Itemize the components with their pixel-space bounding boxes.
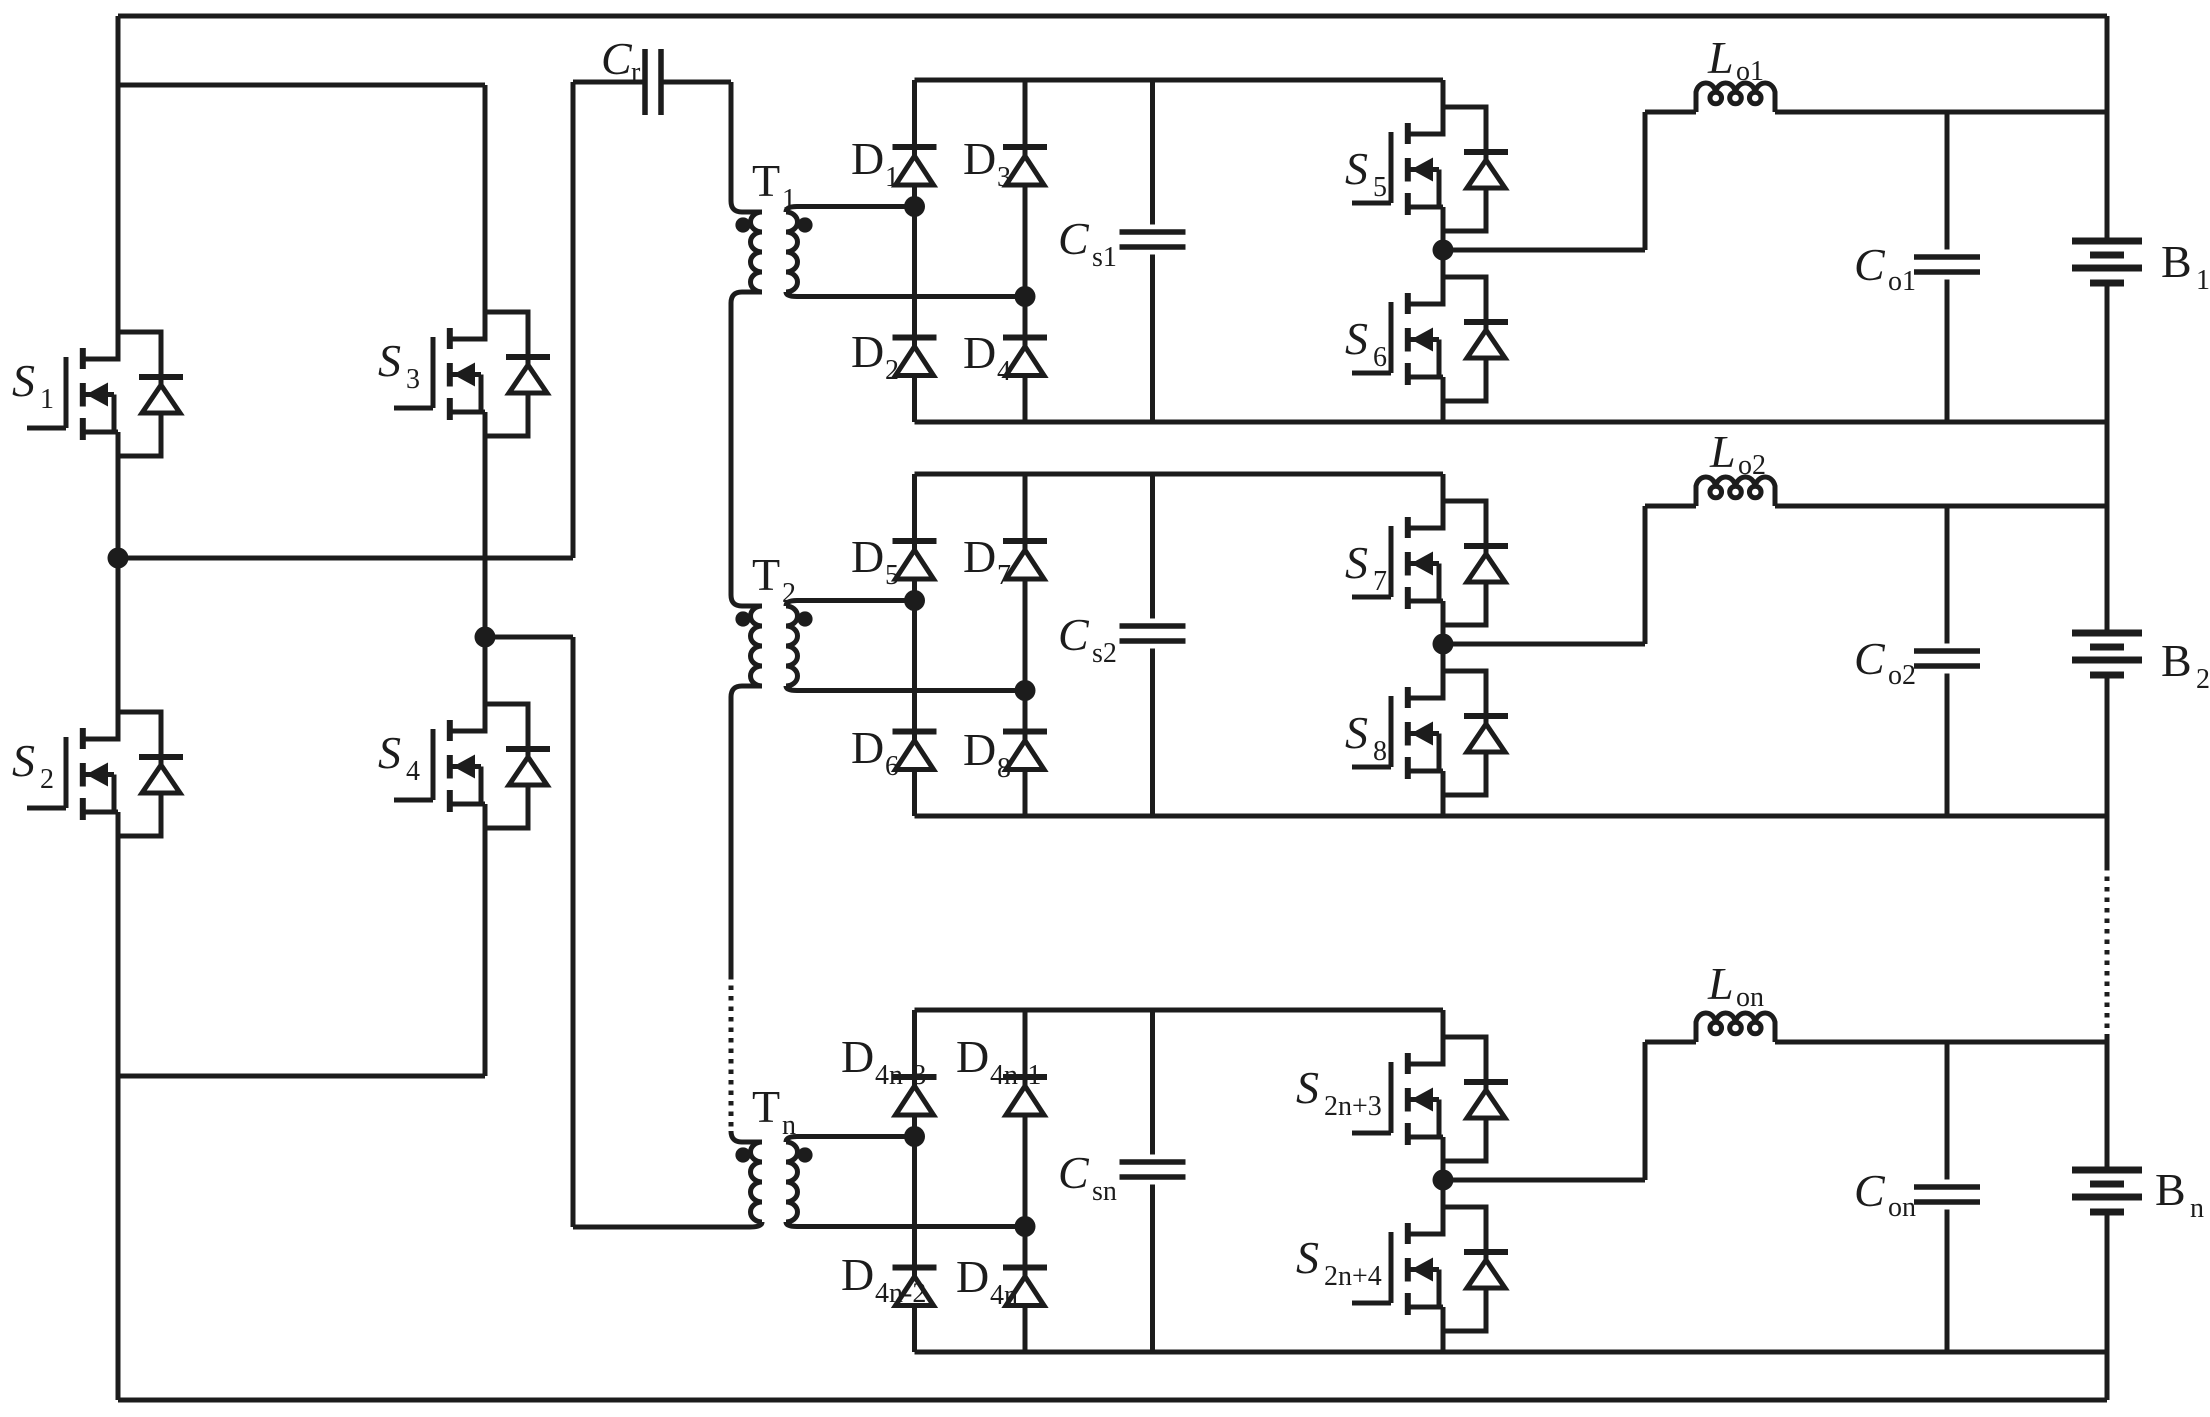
wire: midpoint over to inductor riser — [1443, 642, 1645, 647]
wire: bottom input bus — [118, 1398, 2107, 1403]
wire: S3 source to node B — [483, 436, 488, 637]
node: D1-D2 junction — [904, 196, 925, 217]
wire: capacitor Csn bottom lead — [1150, 1185, 1155, 1353]
wire: Tn secondary bottom lead to D4n-1/D4n node — [786, 1222, 1025, 1227]
diode D4n — [1003, 1268, 1047, 1306]
wire: node B stub to return riser — [485, 635, 573, 640]
node: S2n+3/S2n+4 midpoint — [1433, 1170, 1454, 1191]
transformer T1 primary winding — [751, 212, 763, 292]
wire: capacitor Cs1 top lead — [1150, 80, 1155, 225]
transformer Tn primary phase dot — [735, 1147, 750, 1162]
node: D7-D8 junction — [1015, 680, 1036, 701]
wire: capacitor Con bottom lead — [1945, 1210, 1950, 1353]
wire: Cr left lead — [573, 80, 645, 85]
transformer T1 secondary phase dot — [797, 217, 812, 232]
wire: Lon to battery bus — [1775, 1040, 2107, 1045]
transformer T2 primary phase dot — [735, 611, 750, 626]
wire: section 3 D column 1 upper — [912, 1010, 917, 1077]
capacitor Cs2 — [1120, 626, 1186, 641]
wire: section 2 D column 2 upper — [1023, 474, 1028, 541]
battery B1 — [2072, 241, 2142, 283]
diode D2 — [893, 338, 937, 376]
wire: S2n+3 drain drop — [1441, 1010, 1446, 1037]
wire: S2 source down the left bus to bottom bus — [116, 836, 121, 1400]
wire: capacitor Csn top lead — [1150, 1010, 1155, 1155]
wire: T1 primary bottom to T2 primary top — [731, 292, 762, 606]
transformer Tn primary winding — [751, 1142, 763, 1222]
wire: Cr right lead to primary chain — [661, 80, 731, 85]
wire: section 3 D column 2 middle — [1023, 1115, 1028, 1268]
wire: midpoint to S8 drain — [1441, 644, 1446, 671]
wire: S7 source to midpoint — [1441, 625, 1446, 644]
diode D4n-1 — [1003, 1077, 1047, 1115]
wire: section 1 D column 1 upper — [912, 80, 917, 147]
wire: dashed chain into Tn primary top — [731, 1131, 762, 1142]
wire: midpoint to S6 drain — [1441, 250, 1446, 277]
wire: section 2 D column 1 middle — [912, 579, 917, 732]
wire: section 2 D column 2 lower — [1023, 769, 1028, 816]
diode D5 — [893, 541, 937, 579]
node: D5-D6 junction — [904, 590, 925, 611]
transistor S2 (MOSFET with body diode) — [27, 712, 183, 836]
capacitor Csn — [1120, 1162, 1186, 1177]
wire: section 1 D column 2 middle — [1023, 185, 1028, 338]
wire: T2 secondary top lead to D5-D6 node — [786, 601, 915, 607]
inductor Lo1 — [1696, 83, 1775, 112]
wire: Tn primary bottom lead going left — [573, 1222, 762, 1227]
diode D8 — [1003, 732, 1047, 770]
wire: S4 source down — [483, 828, 488, 1076]
transistor S3 (MOSFET with body diode) — [394, 312, 550, 436]
wire: node A to resonant capacitor riser — [118, 556, 573, 561]
wire: capacitor Co1 top lead — [1945, 112, 1950, 250]
wire: riser to Lon — [1645, 1040, 1696, 1045]
wire: capacitor Cs1 bottom lead — [1150, 255, 1155, 423]
inductor Lo2 — [1696, 477, 1775, 506]
capacitor Cr (resonant capacitor, vertical plates) — [645, 49, 661, 115]
wire: section 1 D column 2 lower — [1023, 375, 1028, 422]
wire: capacitor Co1 bottom lead — [1945, 280, 1950, 423]
capacitor Co2 — [1914, 651, 1980, 666]
wire: section 2 D column 2 middle — [1023, 579, 1028, 732]
diode D4 — [1003, 338, 1047, 376]
wire: right bus B1 to B2 — [2105, 283, 2110, 633]
wire: T2 primary bottom down (solid part) — [731, 686, 762, 975]
wire: section 3 D column 1 lower — [912, 1305, 917, 1352]
wire: section 2 bottom rail — [915, 814, 2108, 819]
transformer T2 secondary phase dot — [797, 611, 812, 626]
wire: section 1 top rail — [915, 78, 1444, 83]
node: D4n-3-D4n-2 junction — [904, 1126, 925, 1147]
wire: midpoint to S2n+4 drain — [1441, 1180, 1446, 1207]
wire: S2n+4 source to bottom rail — [1441, 1331, 1446, 1352]
transistor S5 (MOSFET with body diode) — [1352, 107, 1508, 231]
transistor S1 (MOSFET with body diode) — [27, 332, 183, 456]
wire: Tn secondary top lead to D4n-3/D4n-2 node — [786, 1137, 915, 1143]
wire: capacitor Co2 bottom lead — [1945, 674, 1950, 817]
diode D4n-3 — [893, 1077, 937, 1115]
wire: riser to Lo1 — [1645, 110, 1696, 115]
node A (S1/S2 midpoint junction) — [108, 548, 129, 569]
wire: midpoint over to inductor riser — [1443, 248, 1645, 253]
transistor S2n+3 (MOSFET with body diode) — [1352, 1037, 1508, 1161]
wire: section 3 bottom rail — [915, 1350, 2108, 1355]
wire: left bus upper segment (S1 drain feed) — [116, 16, 121, 332]
wire: T1 secondary bottom lead to D3-D4 node — [786, 292, 1025, 297]
node: D4n-1-D4n junction — [1015, 1216, 1036, 1237]
diode D3 — [1003, 147, 1047, 185]
wire: capacitor Con top lead — [1945, 1042, 1950, 1180]
diode D7 — [1003, 541, 1047, 579]
wire: section 2 D column 1 upper — [912, 474, 917, 541]
wire: S6 source to bottom rail — [1441, 401, 1446, 422]
diode D6 — [893, 732, 937, 770]
diode D4n-2 — [893, 1268, 937, 1306]
wire: primary chain from Cr down to T1 — [731, 82, 762, 212]
wire: Lo2 to battery bus — [1775, 504, 2107, 509]
battery Bn — [2072, 1170, 2142, 1212]
wire: inductor riser — [1643, 1042, 1648, 1180]
wire: section 1 D column 2 upper — [1023, 80, 1028, 147]
wire: section 3 D column 2 lower — [1023, 1305, 1028, 1352]
wire: right bus Bn to bottom bus — [2105, 1212, 2110, 1400]
wire: section 3 D column 1 middle — [912, 1115, 917, 1268]
capacitor Cs1 — [1120, 232, 1186, 247]
wire: riser to Lo2 — [1645, 504, 1696, 509]
transformer Tn secondary phase dot — [797, 1147, 812, 1162]
wire: T1 secondary top lead to D1-D2 node — [786, 207, 915, 213]
transistor S6 (MOSFET with body diode) — [1352, 277, 1508, 401]
transformer T1 primary phase dot — [735, 217, 750, 232]
wire: section 3 top rail — [915, 1008, 1444, 1013]
capacitor Co1 — [1914, 257, 1980, 272]
wire: midpoint over to inductor riser — [1443, 1178, 1645, 1183]
node: S5/S6 midpoint — [1433, 240, 1454, 261]
inductor Lon — [1696, 1013, 1775, 1042]
wire: section 1 bottom rail — [915, 420, 2108, 425]
transformer T2 primary winding — [751, 606, 763, 686]
wire: inductor riser — [1643, 506, 1648, 644]
wire: S5 drain drop — [1441, 80, 1446, 107]
transistor S2n+4 (MOSFET with body diode) — [1352, 1207, 1508, 1331]
diode D1 — [893, 147, 937, 185]
node: D3-D4 junction — [1015, 286, 1036, 307]
node: S7/S8 midpoint — [1433, 634, 1454, 655]
wire: primary chain dashed continuation — [729, 975, 734, 1131]
battery B2 — [2072, 633, 2142, 675]
wire: S2n+3 source to midpoint — [1441, 1161, 1446, 1180]
wire: section 1 D column 1 middle — [912, 185, 917, 338]
wire: S7 drain drop — [1441, 474, 1446, 501]
wire: S3 drain drop — [483, 85, 488, 312]
wire: node B to S4 drain — [483, 637, 488, 704]
wire: S8 source to bottom rail — [1441, 795, 1446, 816]
wire: Lo1 to battery bus — [1775, 110, 2107, 115]
wire: inductor riser — [1643, 112, 1648, 250]
wire: riser up to Cr — [571, 82, 576, 558]
node B (S3/S4 midpoint junction) — [475, 627, 496, 648]
wire: section 2 D column 1 lower — [912, 769, 917, 816]
wire: top input bus — [118, 14, 2107, 19]
wire: node A to S2 drain — [116, 558, 121, 712]
wire: node B return riser — [571, 637, 576, 1227]
wire: right bus above Bn — [2105, 1034, 2110, 1170]
wire: capacitor Cs2 bottom lead — [1150, 649, 1155, 817]
transformer Tn secondary winding — [786, 1142, 798, 1222]
transformer T2 secondary winding — [786, 606, 798, 686]
wire: section 1 D column 1 lower — [912, 375, 917, 422]
wire: capacitor Cs2 top lead — [1150, 474, 1155, 619]
wire: S1 source to node A — [116, 456, 121, 558]
wire: upper bridge rail from left bus to S3 drain — [118, 83, 485, 88]
wire: T2 secondary bottom lead to D7-D8 node — [786, 686, 1025, 691]
transistor S7 (MOSFET with body diode) — [1352, 501, 1508, 625]
wire: capacitor Co2 top lead — [1945, 506, 1950, 644]
wire: right bus dashed continuation — [2105, 866, 2110, 1034]
transformer T1 secondary winding — [786, 212, 798, 292]
wire: right bus top (B1 positive feed) — [2105, 16, 2110, 241]
wire: section 3 D column 2 upper — [1023, 1010, 1028, 1077]
wire: section 2 top rail — [915, 472, 1444, 477]
capacitor Con — [1914, 1187, 1980, 1202]
transistor S8 (MOSFET with body diode) — [1352, 671, 1508, 795]
wire: S4 source over to left bus — [118, 1074, 485, 1079]
wire: S5 source to midpoint — [1441, 231, 1446, 250]
transistor S4 (MOSFET with body diode) — [394, 704, 550, 828]
wire: right bus below B2 — [2105, 675, 2110, 866]
